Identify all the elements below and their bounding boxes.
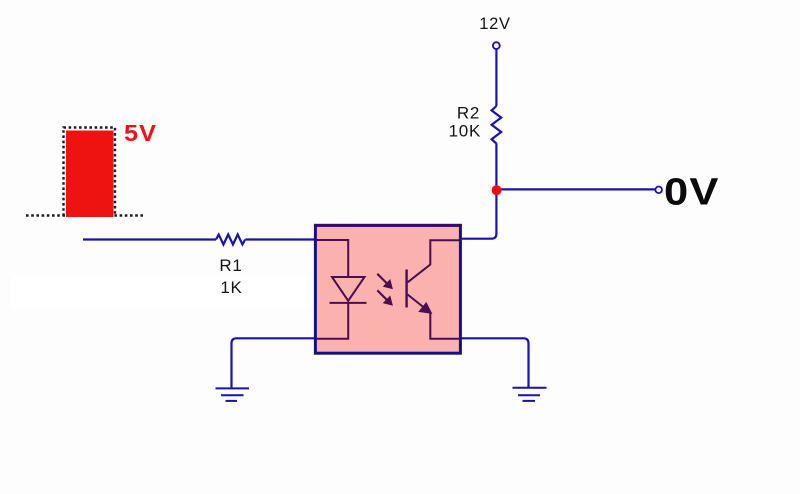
terminal 0V (open circle) [655,187,662,194]
pulse baseline (dotted) [26,214,144,216]
wire: R1 to optocoupler [245,238,315,240]
junction node (red dot) [492,185,502,195]
wire: junction to 0V terminal [496,188,655,190]
wire: emitter to right ground [461,338,529,387]
Q1 emitter with arrow [408,295,461,339]
pulse 5V red rectangle [66,131,114,218]
terminal 12V (open circle) [493,42,500,49]
optocoupler U1 body [315,225,460,353]
svg-text:5V: 5V [124,121,157,147]
svg-text:10K: 10K [449,122,481,141]
svg-text:R2: R2 [457,104,480,123]
LED cathode bar [330,302,367,304]
light arrow 2 [377,290,392,305]
light arrow 1 [377,274,392,289]
wire: input to R1 [83,238,216,240]
svg-text:R1: R1 [219,256,242,275]
wire: R2 to junction and down to collector [462,143,496,239]
ground (left) [216,388,250,401]
optocoupler top edge (purple) [314,224,462,227]
resistor R1 [216,235,245,245]
svg-text:0V: 0V [664,170,719,213]
ground (right) [513,388,547,401]
LED anode lead (internal) [316,240,348,277]
Q1 collector (internal) [408,240,461,282]
wire: 12V to R2 [495,49,497,106]
wire: LED cathode to left ground [232,338,316,388]
resistor R2 [492,106,502,144]
pulse dotted outline [64,128,116,217]
svg-text:12V: 12V [479,15,510,33]
phototransistor Q1 base bar [405,270,407,308]
LED D1 triangle [332,277,365,301]
LED cathode lead (internal) [316,303,348,339]
svg-text:1K: 1K [220,278,242,297]
